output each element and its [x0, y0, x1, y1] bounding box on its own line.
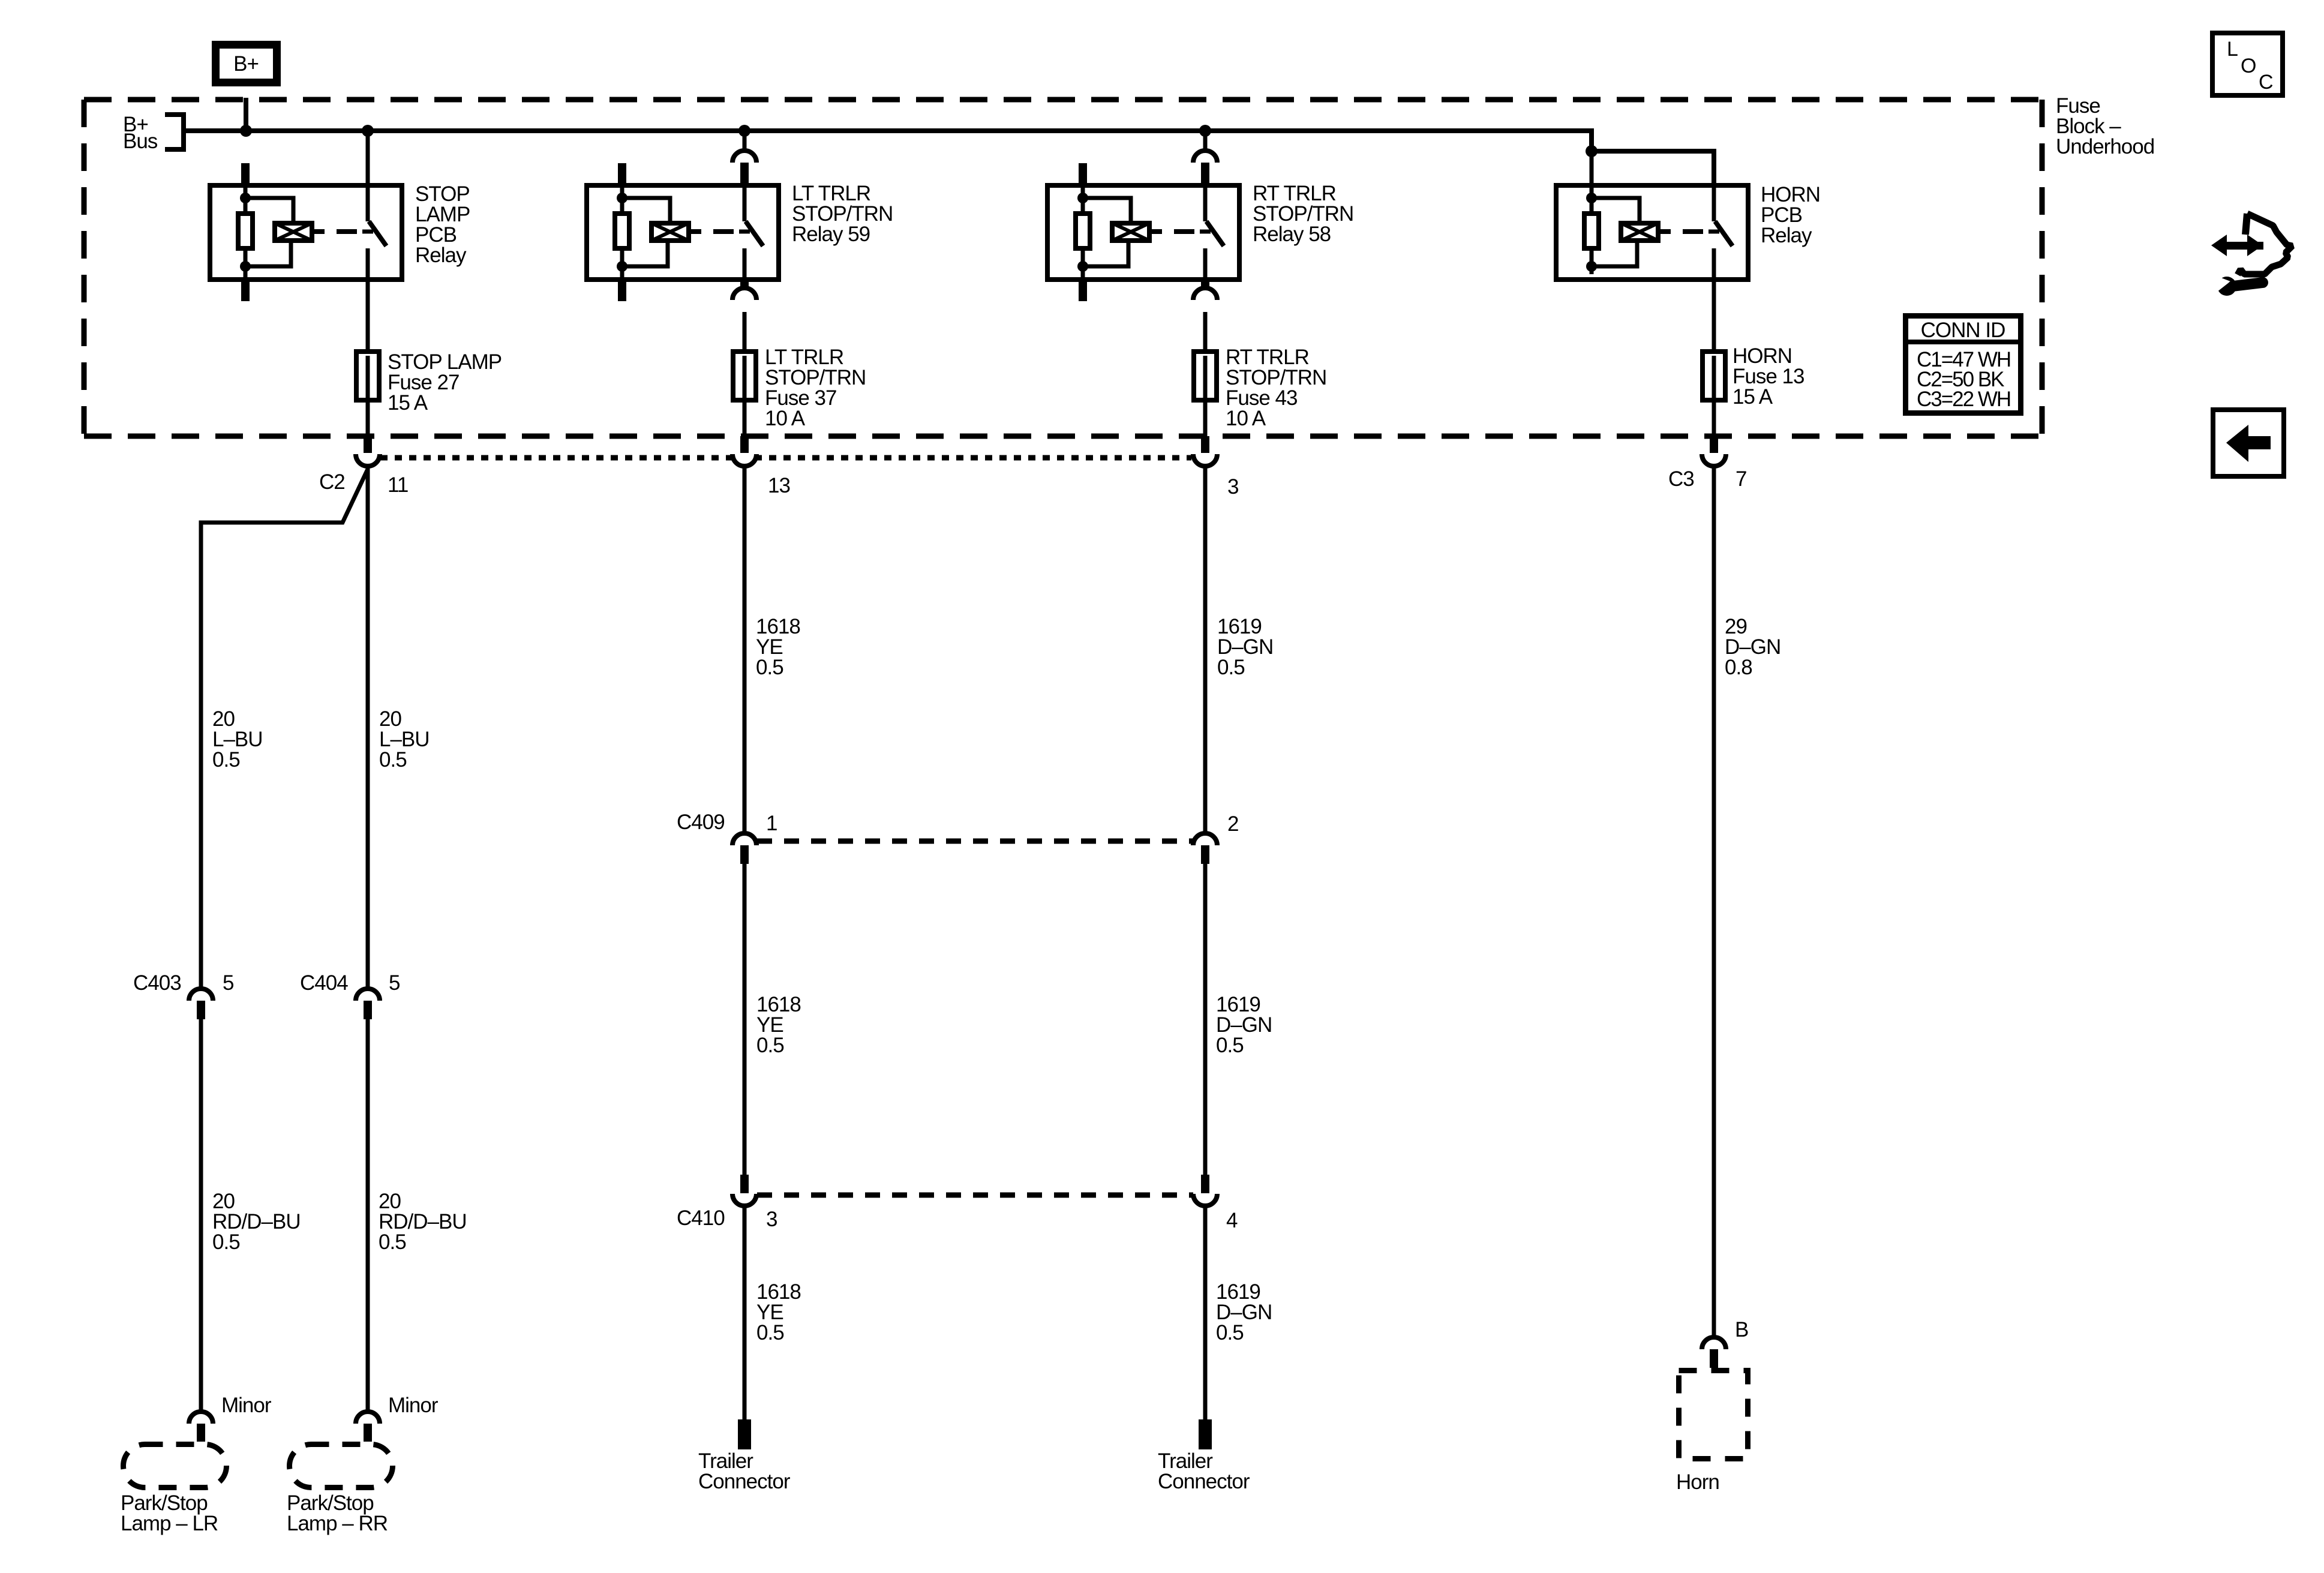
- wire C409 pin1 down: [743, 864, 747, 1175]
- wire C3 pin 7 down to horn: [1712, 466, 1716, 1336]
- connector C409 dashed link: [757, 839, 1193, 844]
- svg-text:Minor: Minor: [221, 1394, 272, 1417]
- svg-text:Relay 58: Relay 58: [1253, 223, 1331, 246]
- junction dot B+: [240, 125, 252, 137]
- svg-text:0.5: 0.5: [212, 748, 240, 772]
- svg-text:15 A: 15 A: [1733, 385, 1773, 409]
- junction dot RT relay tap: [1199, 125, 1211, 137]
- svg-text:Relay: Relay: [1761, 224, 1812, 247]
- connector pin 13: [740, 436, 749, 453]
- svg-text:O: O: [2241, 55, 2256, 77]
- splice Minor left: [189, 1412, 213, 1424]
- icon back arrow box: [2213, 410, 2284, 476]
- connector C403 pin 5: [189, 989, 213, 1001]
- svg-text:0.5: 0.5: [379, 1230, 406, 1254]
- svg-text:Minor: Minor: [388, 1394, 439, 1417]
- connector row dotted line: [380, 455, 1191, 461]
- connector arc RT relay top: [1193, 151, 1217, 163]
- wire C410 pin4 down: [1203, 1206, 1208, 1421]
- wire horn relay to fuse: [1712, 280, 1716, 356]
- relay HORN PCB Relay: [1556, 183, 1748, 282]
- svg-text:Bus: Bus: [123, 130, 158, 153]
- svg-text:0.5: 0.5: [379, 748, 407, 772]
- svg-text:4: 4: [1226, 1209, 1238, 1232]
- connector arc RT relay bottom: [1201, 280, 1209, 299]
- wire bus to LT relay connector: [743, 131, 747, 152]
- icon hand with wrench: [2211, 214, 2292, 296]
- svg-text:5: 5: [389, 971, 400, 995]
- bus corner down to horn: [1589, 128, 1594, 151]
- connector C410 dashed link: [757, 1193, 1193, 1198]
- svg-text:0.8: 0.8: [1725, 656, 1752, 679]
- svg-text:0.5: 0.5: [1216, 1321, 1244, 1344]
- svg-text:Underhood: Underhood: [2056, 135, 2154, 158]
- svg-text:2: 2: [1227, 812, 1238, 836]
- connector C410 pin 4: [1201, 1175, 1209, 1193]
- svg-text:13: 13: [768, 474, 790, 497]
- terminal trailer connector right: [1199, 1419, 1212, 1449]
- svg-text:0.5: 0.5: [1217, 656, 1245, 679]
- splice Minor right: [356, 1412, 380, 1424]
- svg-text:CONN ID: CONN ID: [1921, 319, 2005, 342]
- svg-text:C409: C409: [677, 810, 725, 834]
- svg-text:L: L: [2227, 38, 2238, 61]
- fuse block underhood dashed border: [84, 97, 2042, 103]
- svg-text:B+: B+: [233, 52, 259, 76]
- svg-text:C: C: [2259, 71, 2273, 94]
- relay RT TRLR STOP/TRN Relay 58: [1047, 183, 1239, 282]
- connector pin 3: [1201, 436, 1209, 453]
- junction dot horn coil: [1586, 145, 1598, 157]
- wire fuse to C3: [1712, 397, 1716, 439]
- Park/Stop Lamp LR dashed outline: [124, 1445, 227, 1488]
- wire LT relay to fuse: [743, 312, 747, 356]
- CONN ID table: [1906, 316, 2021, 413]
- svg-text:Relay: Relay: [415, 244, 467, 267]
- terminal trailer connector left: [738, 1419, 751, 1449]
- wire fuse to C2: [366, 397, 370, 439]
- svg-text:C403: C403: [133, 971, 181, 995]
- svg-text:3: 3: [766, 1208, 777, 1231]
- wire branch to C403: [201, 469, 368, 989]
- Horn dashed outline: [1679, 1371, 1748, 1459]
- fuse HORN Fuse 13: [1703, 352, 1725, 400]
- wire C2 pin 11 down: [366, 466, 370, 989]
- B+ power symbol: [216, 45, 277, 83]
- svg-text:0.5: 0.5: [1216, 1034, 1244, 1057]
- svg-text:C404: C404: [300, 971, 348, 995]
- connector B horn: [1702, 1337, 1726, 1349]
- svg-text:0.5: 0.5: [756, 1321, 784, 1344]
- connector C404 pin 5: [356, 989, 380, 1001]
- svg-text:C2: C2: [319, 470, 345, 494]
- svg-text:5: 5: [223, 971, 233, 995]
- wire fuse to pin 13: [743, 397, 747, 439]
- connector C410 pin 3: [740, 1175, 749, 1193]
- wire pin 3 down: [1203, 466, 1208, 834]
- connector C2 pin 11: [364, 436, 372, 453]
- svg-text:C410: C410: [677, 1206, 725, 1230]
- svg-text:15 A: 15 A: [388, 391, 428, 415]
- wire pin 13 down: [743, 466, 747, 834]
- connector C409 pin 1: [732, 833, 756, 845]
- wire fuse to pin 3: [1203, 397, 1208, 439]
- connector arc LT relay top: [732, 151, 756, 163]
- svg-text:10 A: 10 A: [1226, 407, 1266, 430]
- wire stop relay to fuse: [366, 280, 370, 356]
- svg-text:3: 3: [1227, 475, 1238, 499]
- svg-text:C3=22 WH: C3=22 WH: [1917, 388, 2010, 411]
- B+ bus wire: [184, 128, 1592, 133]
- B+ bus bracket: [165, 115, 184, 149]
- svg-text:0.5: 0.5: [756, 1034, 784, 1057]
- junction dot stop lamp relay tap: [362, 125, 374, 137]
- svg-text:Relay 59: Relay 59: [792, 223, 870, 246]
- svg-text:0.5: 0.5: [212, 1230, 240, 1254]
- wire bus to RT relay connector: [1203, 131, 1208, 152]
- svg-text:Connector: Connector: [1158, 1470, 1250, 1493]
- wire RT relay to fuse: [1203, 312, 1208, 356]
- svg-text:C3: C3: [1668, 467, 1694, 491]
- connector arc LT relay bottom: [740, 280, 749, 299]
- relay LT TRLR STOP/TRN Relay 59: [587, 183, 779, 282]
- svg-text:1: 1: [766, 812, 777, 835]
- svg-text:B: B: [1735, 1318, 1748, 1341]
- B+ drop wire: [244, 98, 248, 131]
- wire C404 down: [366, 1019, 370, 1410]
- junction dot LT relay tap: [738, 125, 750, 137]
- Park/Stop Lamp RR dashed outline: [290, 1445, 393, 1488]
- fuse LT TRLR STOP/TRN Fuse 37: [733, 352, 756, 400]
- svg-text:10 A: 10 A: [765, 407, 806, 430]
- fuse RT TRLR STOP/TRN Fuse 43: [1194, 352, 1217, 400]
- svg-text:Lamp – RR: Lamp – RR: [287, 1512, 388, 1535]
- connector C3 pin 7: [1710, 436, 1718, 453]
- wire C403 down: [199, 1019, 203, 1410]
- svg-text:Horn: Horn: [1676, 1470, 1719, 1494]
- svg-text:11: 11: [388, 473, 408, 497]
- wire bus to stop relay: [366, 131, 370, 185]
- svg-text:Lamp – LR: Lamp – LR: [121, 1512, 218, 1535]
- svg-text:Connector: Connector: [698, 1470, 791, 1493]
- wire C410 pin3 down: [743, 1206, 747, 1421]
- fuse STOP LAMP Fuse 27: [356, 352, 379, 400]
- icon LOC box: [2212, 33, 2283, 95]
- connector C409 pin 2: [1193, 833, 1217, 845]
- svg-text:7: 7: [1736, 467, 1746, 491]
- svg-text:0.5: 0.5: [756, 656, 783, 679]
- wire horn switch feed: [1592, 151, 1714, 185]
- wire horn coil feed: [1590, 151, 1594, 187]
- wire C409 pin2 down: [1203, 864, 1208, 1175]
- relay STOP LAMP PCB Relay: [210, 183, 402, 282]
